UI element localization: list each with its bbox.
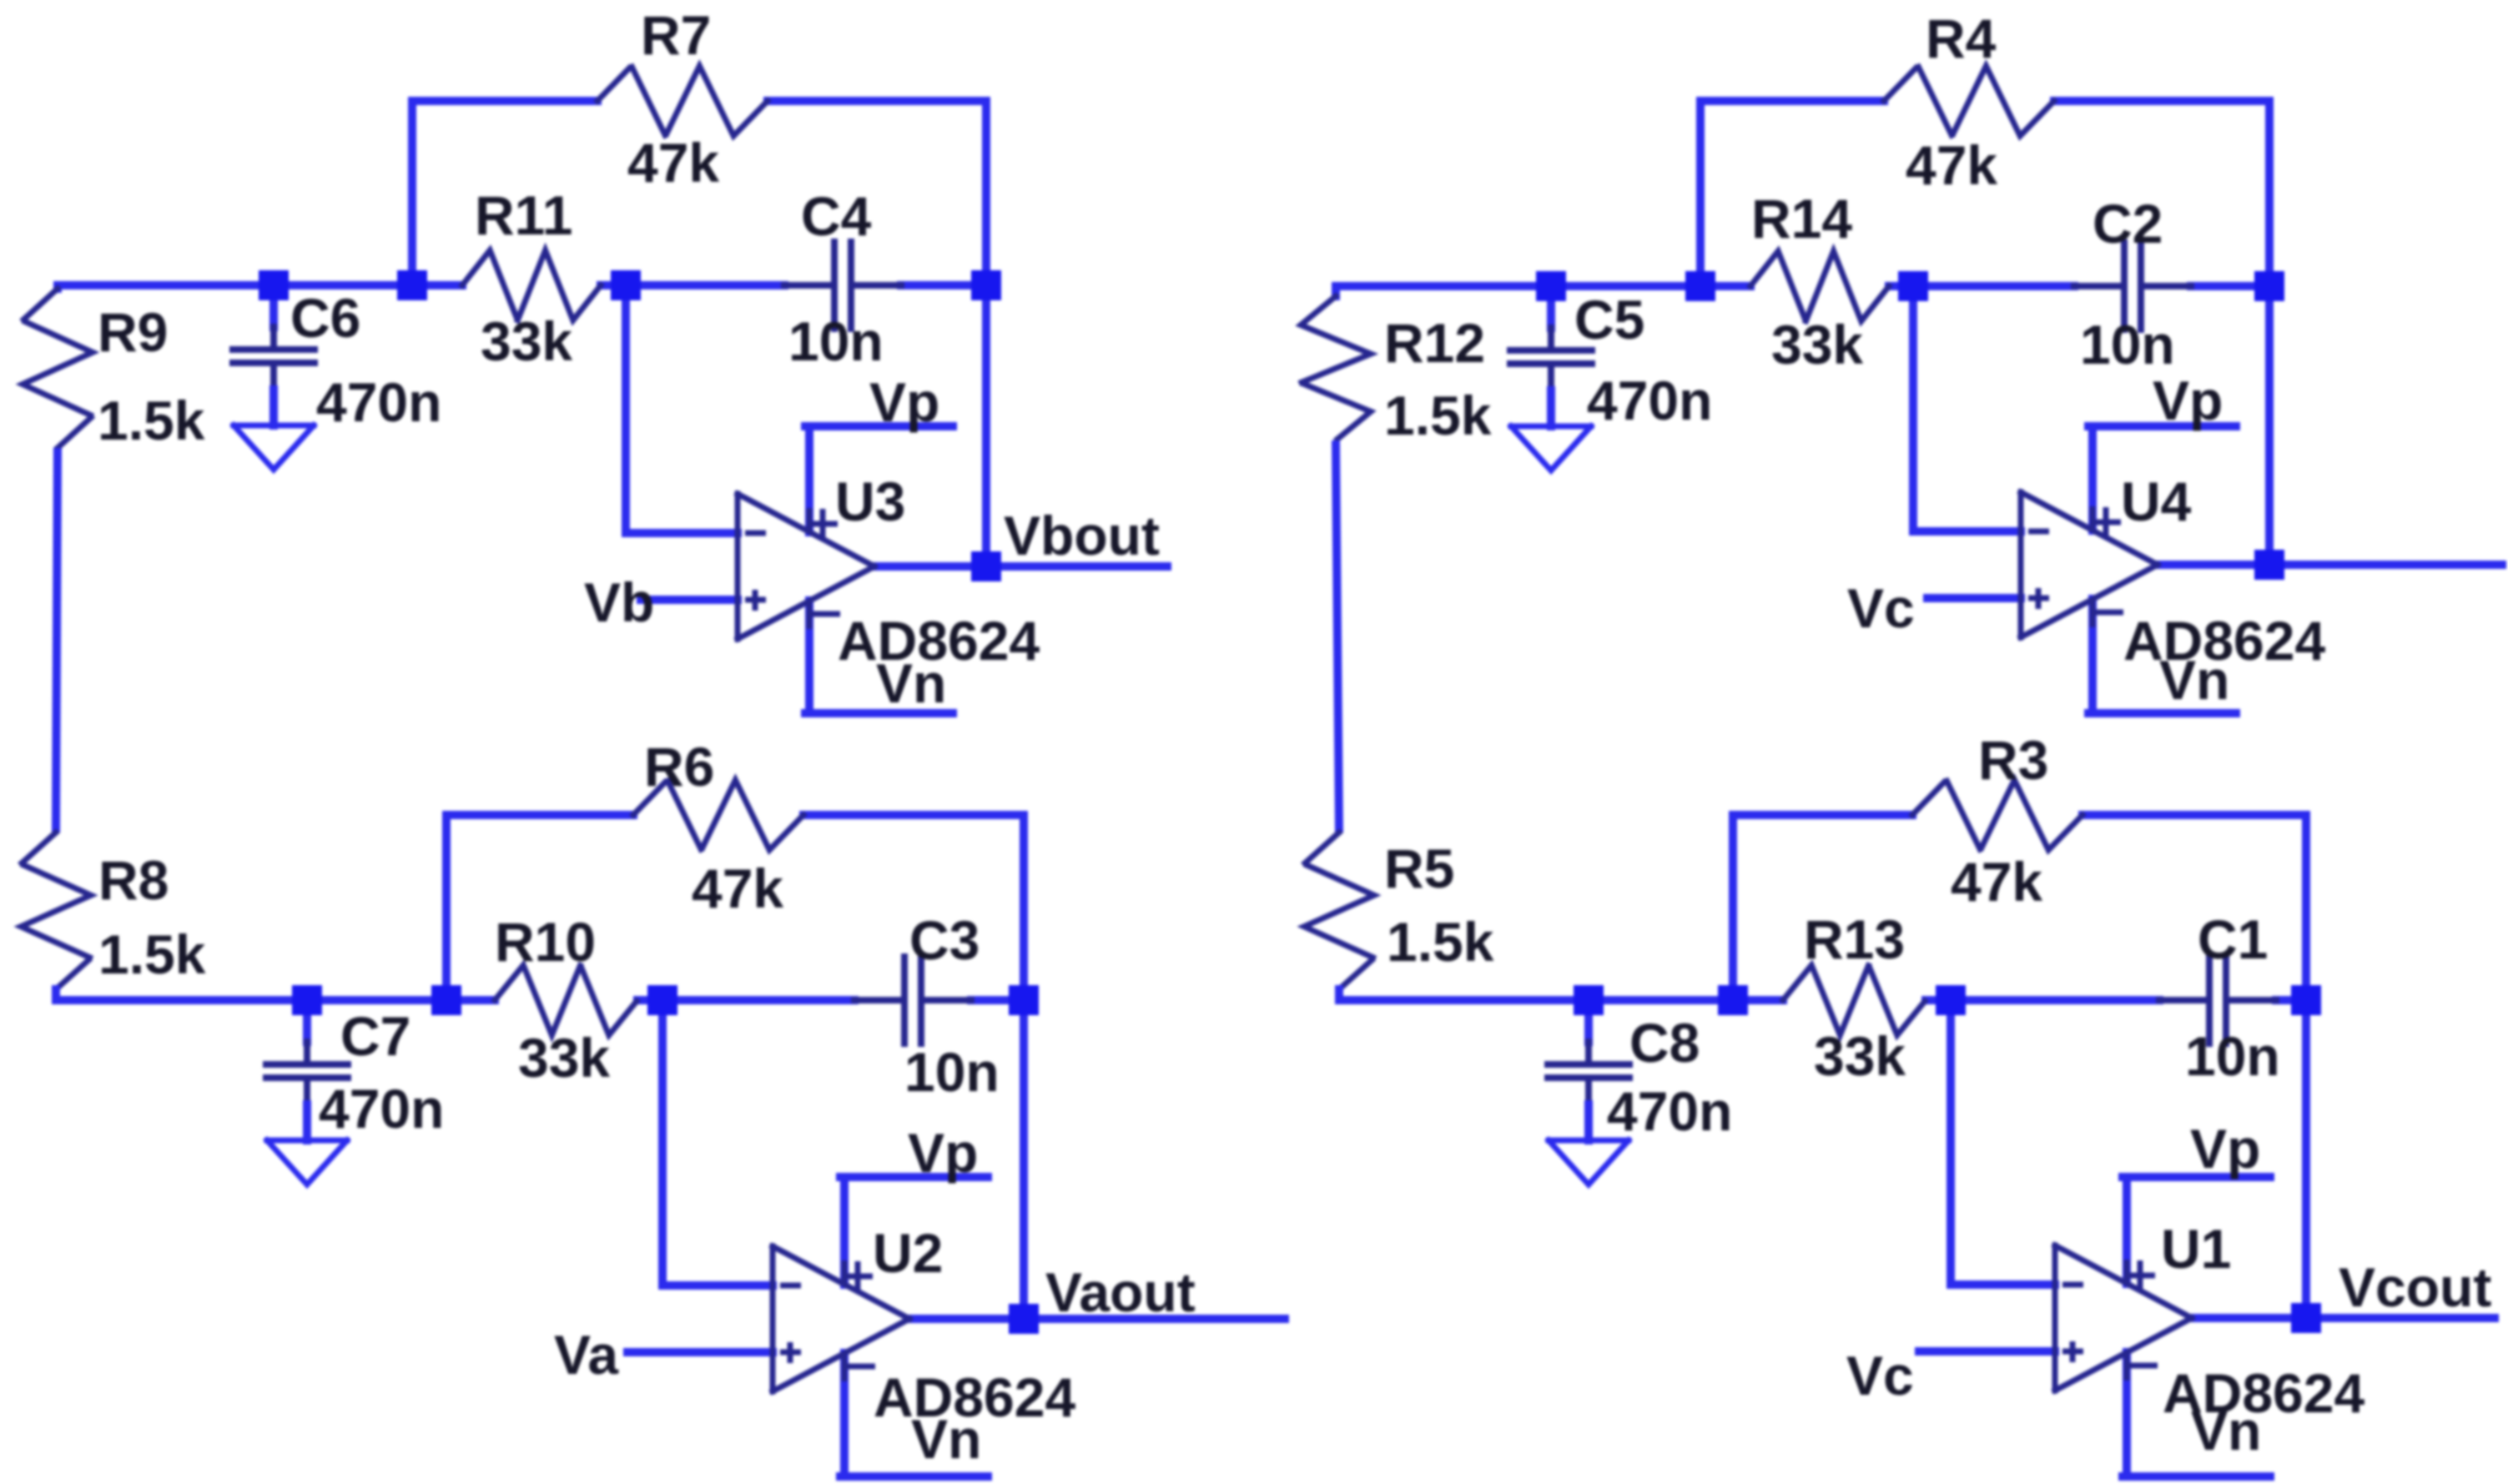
svg-text:U1: U1: [2161, 1218, 2231, 1280]
svg-text:Vp: Vp: [2190, 1118, 2260, 1180]
svg-text:Vc: Vc: [1846, 1345, 1914, 1406]
svg-text:U4: U4: [2121, 470, 2192, 532]
svg-text:470n: 470n: [1587, 370, 1712, 431]
svg-text:33k: 33k: [1814, 1025, 1906, 1087]
svg-text:Va: Va: [554, 1324, 619, 1386]
svg-text:R7: R7: [641, 4, 711, 66]
svg-text:Vp: Vp: [2153, 370, 2223, 431]
svg-text:U3: U3: [835, 470, 905, 532]
svg-text:U2: U2: [873, 1222, 943, 1284]
svg-text:R5: R5: [1384, 838, 1454, 899]
svg-text:47k: 47k: [627, 132, 719, 194]
svg-text:10n: 10n: [788, 310, 884, 372]
svg-text:C2: C2: [2093, 193, 2163, 254]
svg-text:Vn: Vn: [2159, 649, 2229, 711]
svg-text:C6: C6: [290, 287, 360, 349]
svg-text:R3: R3: [1978, 729, 2048, 791]
svg-text:1.5k: 1.5k: [1387, 911, 1494, 973]
svg-text:R11: R11: [475, 184, 572, 246]
svg-text:470n: 470n: [316, 371, 441, 433]
svg-text:Vbout: Vbout: [1004, 505, 1160, 566]
svg-text:C1: C1: [2198, 908, 2268, 970]
svg-text:Vb: Vb: [584, 571, 654, 633]
svg-text:10n: 10n: [2185, 1025, 2280, 1087]
svg-text:Vn: Vn: [2191, 1400, 2261, 1461]
svg-text:10n: 10n: [904, 1041, 1000, 1103]
svg-text:33k: 33k: [1771, 314, 1863, 375]
svg-text:1.5k: 1.5k: [98, 923, 206, 985]
svg-text:47k: 47k: [1951, 851, 2042, 913]
svg-text:1.5k: 1.5k: [1384, 385, 1492, 446]
svg-text:1.5k: 1.5k: [98, 390, 205, 451]
svg-text:47k: 47k: [1906, 134, 1997, 196]
svg-text:Vp: Vp: [869, 371, 939, 433]
svg-text:33k: 33k: [481, 310, 572, 372]
svg-text:470n: 470n: [1607, 1080, 1732, 1142]
svg-text:Vcout: Vcout: [2339, 1256, 2491, 1318]
svg-text:Vn: Vn: [876, 652, 946, 714]
svg-text:R6: R6: [644, 736, 714, 797]
svg-text:33k: 33k: [518, 1027, 610, 1089]
svg-text:470n: 470n: [319, 1078, 444, 1139]
svg-text:R12: R12: [1384, 312, 1485, 374]
svg-text:R4: R4: [1926, 8, 1997, 69]
svg-text:Vn: Vn: [911, 1408, 981, 1470]
svg-text:C8: C8: [1629, 1012, 1700, 1074]
svg-text:R10: R10: [495, 911, 596, 973]
svg-text:10n: 10n: [2080, 314, 2175, 375]
svg-text:47k: 47k: [692, 858, 783, 919]
svg-text:C4: C4: [801, 185, 872, 247]
svg-text:Vp: Vp: [908, 1122, 978, 1184]
svg-text:C7: C7: [340, 1005, 410, 1067]
svg-text:R9: R9: [98, 301, 168, 363]
svg-text:R13: R13: [1804, 908, 1905, 970]
svg-text:Vaout: Vaout: [1045, 1261, 1196, 1323]
svg-text:Vc: Vc: [1847, 577, 1915, 639]
svg-text:C3: C3: [909, 909, 980, 971]
svg-text:R14: R14: [1751, 188, 1852, 249]
svg-text:R8: R8: [98, 849, 169, 911]
svg-text:C5: C5: [1574, 289, 1644, 350]
